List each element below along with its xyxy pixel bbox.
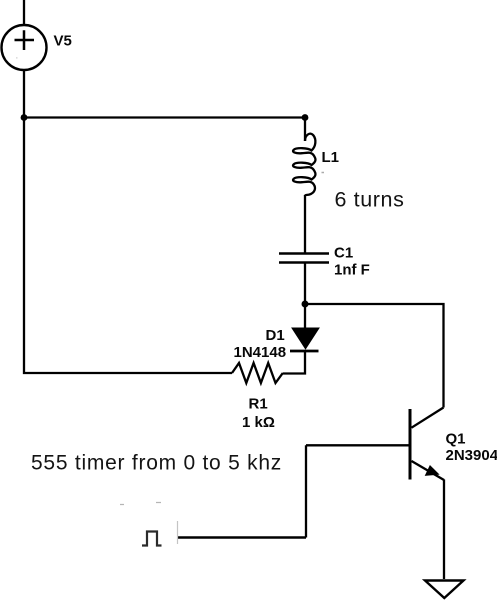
svg-text:D1: D1 (266, 327, 285, 344)
svg-text:6 turns: 6 turns (335, 188, 405, 212)
svg-text:Q1: Q1 (446, 431, 466, 448)
wire L1 to C1 (304, 195, 306, 253)
node junction left (21, 114, 28, 121)
wire top rail (24, 116, 305, 118)
wire V5 bottom to left rail (24, 70, 232, 373)
wire base drive vertical (305, 445, 307, 537)
faint speck marks (120, 503, 161, 505)
pulse source symbol (142, 532, 162, 546)
wire node to collector (305, 304, 444, 408)
diode D1 (292, 328, 319, 349)
wire node to D1 anode (304, 304, 306, 329)
svg-text:R1: R1 (249, 396, 268, 413)
resistor R1 (232, 363, 283, 383)
svg-text:1nf F: 1nf F (334, 262, 370, 279)
ground (425, 581, 464, 599)
faint speck near L1 (322, 172, 325, 174)
svg-text:555 timer from 0 to 5 khz: 555 timer from 0 to 5 khz (31, 452, 282, 475)
wire D1 cathode to R1 (283, 352, 305, 374)
transistor Q1 emitter arrow (425, 465, 440, 476)
wire emitter to ground (443, 480, 445, 580)
wire C1 to node (304, 263, 306, 304)
transistor Q1 emitter lead (412, 461, 445, 480)
wire top lead of V5 (23, 0, 25, 25)
svg-text:V5: V5 (54, 33, 72, 50)
node junction top right (302, 114, 309, 121)
faint speck inside V5 (16, 57, 18, 59)
transistor Q1 collector lead (412, 408, 444, 428)
wire top rail to L1 (304, 118, 306, 142)
plus sign of V5 (15, 30, 35, 50)
svg-text:1 kΩ: 1 kΩ (242, 414, 275, 431)
svg-text:2N3904: 2N3904 (446, 447, 497, 464)
wire base lead (306, 444, 409, 446)
capacitor C1 (279, 254, 329, 263)
inductor L1 (293, 134, 315, 196)
svg-text:L1: L1 (322, 149, 340, 166)
wire base drive horizontal (177, 536, 306, 539)
svg-text:C1: C1 (334, 245, 353, 262)
diode D1 cathode bar (290, 350, 319, 353)
voltage source V5 (2, 25, 47, 70)
faint input stub line (177, 521, 179, 544)
node junction collector net (302, 301, 309, 308)
svg-text:1N4148: 1N4148 (234, 344, 287, 361)
transistor Q1 base bar (409, 409, 412, 480)
